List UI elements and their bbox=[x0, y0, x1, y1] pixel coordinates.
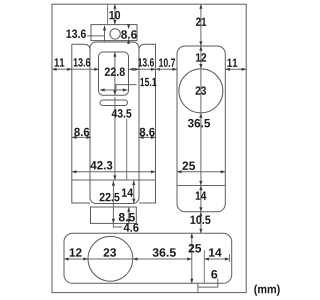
extension line beside dim 10 bbox=[107, 4, 109, 24]
dim 14 bottom label bbox=[209, 248, 222, 256]
extension line x126.7 bbox=[126, 119, 128, 181]
dim 14 right bbox=[200, 186, 202, 212]
fold line across left plate bbox=[72, 179, 156, 181]
right side flap bbox=[139, 44, 156, 203]
dim 25 bottom plate bbox=[191, 233, 193, 283]
dim 8.6 left flap bbox=[72, 136, 91, 138]
dim 8.6 right flap bbox=[139, 136, 156, 138]
dim 4.6 leader bbox=[113, 223, 122, 227]
right plate bbox=[177, 46, 225, 212]
dim 6 bracket bbox=[198, 279, 218, 288]
dim 22.8 label bbox=[105, 68, 125, 76]
fold line across right plate bbox=[177, 185, 225, 187]
dim 10.7 bbox=[156, 68, 178, 70]
right plate hole circle bbox=[179, 69, 223, 113]
dim 13.6 tab extension and arrow bbox=[104, 26, 106, 42]
top tab hole circle bbox=[110, 29, 120, 39]
dim 42.3 bbox=[72, 171, 156, 173]
dim 22.8 outside arrows bbox=[91, 68, 99, 70]
dim 10 line bbox=[114, 4, 116, 24]
left plate top tab bbox=[91, 25, 137, 41]
unit label (mm) bbox=[254, 285, 279, 296]
dim 36.5 bbox=[200, 113, 202, 185]
dim 43.5 line bbox=[114, 52, 116, 95]
dim 14 left bbox=[133, 181, 135, 204]
bottom dim row lines bbox=[64, 258, 192, 260]
dim 11 right bbox=[225, 68, 246, 70]
dim 25 right plate bbox=[177, 171, 225, 173]
extension tick x229.5 bbox=[229, 254, 231, 262]
dim 22.5 bbox=[112, 181, 114, 223]
circle centerline right plate bbox=[200, 69, 202, 114]
left side flap bbox=[72, 44, 90, 203]
dim 8.6 tab arrows bbox=[128, 25, 130, 29]
dim 23 bottom label bbox=[104, 248, 117, 257]
bottom plate hole circle bbox=[88, 236, 133, 281]
dim 13.6 tab label bbox=[66, 30, 85, 39]
dim 12 bbox=[200, 46, 202, 69]
dim 13.6 tab leader bbox=[87, 35, 105, 37]
slot below hole bbox=[100, 100, 128, 106]
left main plate bbox=[90, 42, 139, 204]
label 23 right plate bbox=[196, 86, 206, 95]
dim 36.5 bottom label bbox=[152, 248, 175, 257]
inner square hole bbox=[99, 52, 129, 95]
outer border frame bbox=[52, 4, 246, 292]
dim 8.6 tab label bbox=[121, 30, 137, 38]
dim 21 bbox=[200, 4, 202, 46]
dim 11 left bbox=[52, 68, 72, 70]
bottom plate bbox=[64, 233, 232, 283]
dim 12 bottom label bbox=[70, 248, 82, 256]
dim 15.1 leader bbox=[100, 85, 137, 90]
dim 43.5 label bbox=[112, 109, 132, 118]
dim 13.6 right bbox=[139, 68, 156, 70]
dim 10.5 bbox=[200, 212, 202, 234]
dim 10 label bbox=[110, 11, 121, 19]
dim 6 label bbox=[211, 270, 217, 278]
dim 15.1 label bbox=[140, 78, 156, 86]
dim 8.5 bbox=[128, 207, 130, 223]
left plate bottom tab bbox=[91, 207, 137, 223]
dim 13.6 left bbox=[72, 68, 91, 70]
extension line x204 bbox=[203, 250, 205, 283]
